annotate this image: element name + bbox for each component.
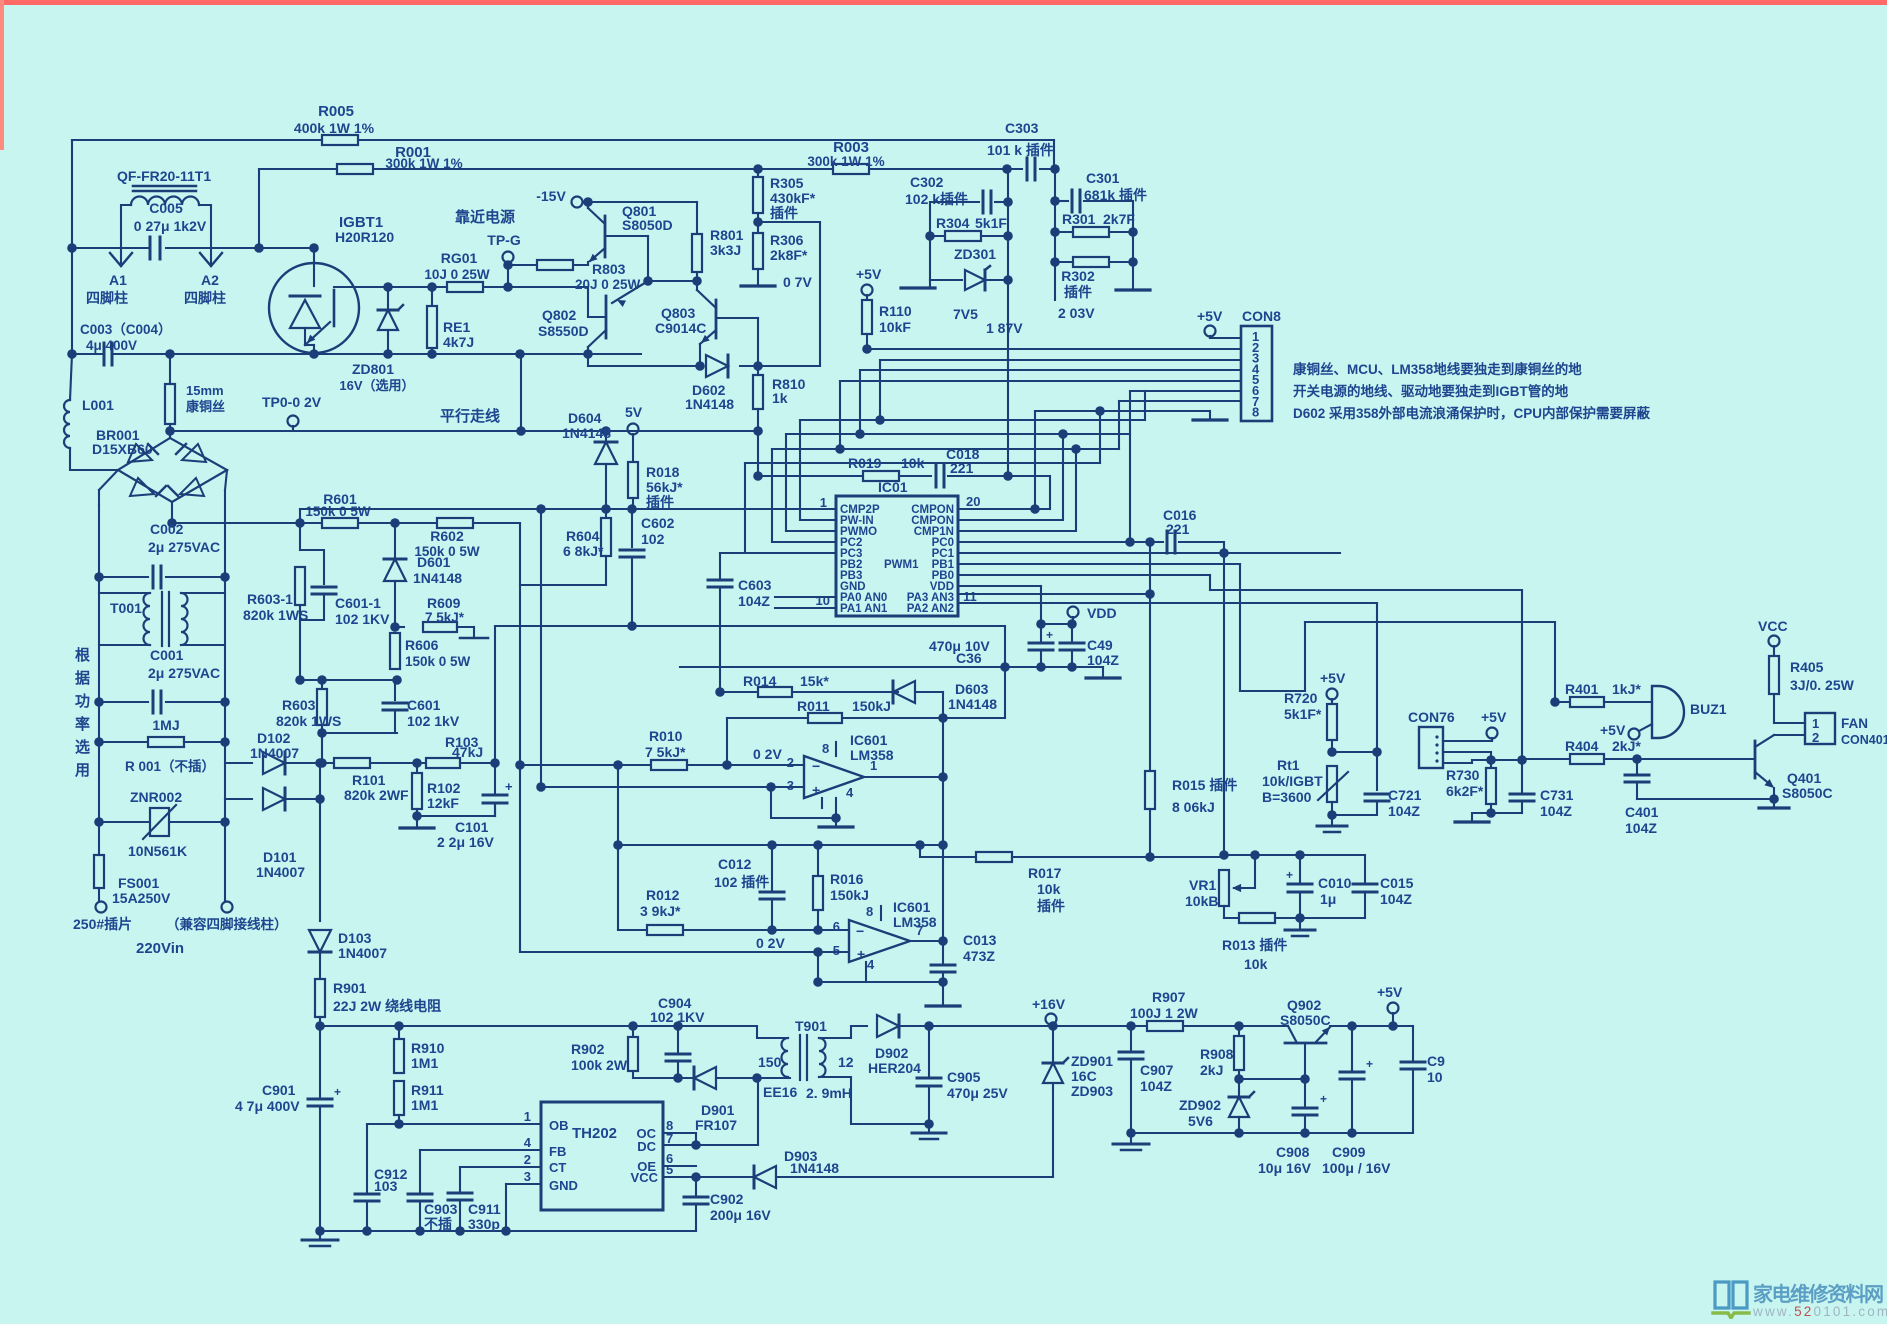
wire rail Q902 emitter east (1330, 1025, 1413, 1027)
wire MCU PB0 row (958, 574, 1210, 576)
wire CT line (460, 1166, 541, 1168)
capacitor C015 (1364, 855, 1366, 882)
node R017 R015 (1145, 852, 1155, 862)
ground C901 (319, 1231, 321, 1238)
terminal VDD (1068, 607, 1079, 618)
svg-text:C005: C005 (149, 200, 183, 216)
resistor R803 (537, 260, 573, 270)
node R908 bottom (1234, 1074, 1244, 1084)
wire secondary bottom (819, 1077, 929, 1124)
svg-text:-15V: -15V (536, 188, 566, 204)
resistor RE1 (431, 287, 433, 306)
wire C301 right drop (1132, 201, 1134, 262)
node opamp2 out (938, 936, 948, 946)
svg-text:10kF: 10kF (879, 319, 911, 335)
wire MCU PC1 row y553 (958, 552, 1224, 554)
svg-text:150kJ: 150kJ (830, 887, 869, 903)
svg-text:B=3600: B=3600 (1262, 789, 1312, 805)
node D603 R011 (938, 713, 948, 723)
wire con76 row y760 (1472, 759, 1522, 761)
svg-text:CT: CT (549, 1160, 566, 1175)
wire L001 to bridge (70, 448, 118, 470)
wire con76 pin top (1443, 740, 1492, 742)
svg-text:C602: C602 (641, 515, 675, 531)
resistor R013 (1239, 913, 1275, 923)
svg-text:+: + (1366, 1057, 1373, 1071)
svg-text:Q802: Q802 (542, 307, 576, 323)
thermistor Rt1 (1327, 766, 1337, 802)
svg-text:R603-1: R603-1 (247, 591, 293, 607)
wire rail R907 to Q902 (1183, 1025, 1288, 1027)
node C907 top (1126, 1021, 1136, 1031)
svg-text:3: 3 (524, 1169, 531, 1184)
svg-text:102 1KV: 102 1KV (335, 611, 390, 627)
node rail igbt emitter (309, 349, 319, 359)
wire bridge bottom to rail (171, 502, 173, 523)
svg-text:104Z: 104Z (1087, 652, 1119, 668)
resistor R016 (817, 845, 819, 876)
svg-text:C301: C301 (1086, 170, 1120, 186)
resistor R603 (321, 680, 323, 689)
wire sense line y431 (170, 430, 521, 432)
svg-text:150k 0 5W: 150k 0 5W (305, 504, 371, 519)
svg-text:不插: 不插 (424, 1216, 452, 1232)
node R730 top (1486, 755, 1496, 765)
wire con76 pin bottom (1443, 762, 1472, 764)
resistor R601 (322, 518, 358, 528)
wire MCU PC3 row to C603 (720, 552, 745, 554)
capacitor C907 (1130, 1026, 1132, 1050)
svg-text:+: + (857, 946, 865, 962)
wire right AC column x225 (225, 470, 227, 490)
svg-text:2: 2 (1812, 730, 1819, 745)
svg-text:T001: T001 (110, 600, 142, 616)
svg-text:104Z: 104Z (738, 593, 770, 609)
svg-text:FAN: FAN (1841, 716, 1868, 731)
svg-text:TH202: TH202 (572, 1125, 617, 1142)
svg-text:C908: C908 (1276, 1144, 1310, 1160)
svg-text:DC: DC (637, 1139, 656, 1154)
node R603-1 bottom row (295, 675, 305, 685)
svg-text:1kJ*: 1kJ* (1612, 681, 1641, 697)
wire CON8 pin7 (1119, 400, 1241, 402)
resistor R010 (651, 760, 687, 770)
svg-text:D901: D901 (701, 1102, 735, 1118)
diode D602 (706, 355, 728, 377)
wire pin3 line y787 (541, 786, 804, 788)
svg-text:C731: C731 (1540, 787, 1574, 803)
svg-text:1N4007: 1N4007 (338, 945, 387, 961)
node TP-G gate (503, 282, 513, 292)
svg-text:RE1: RE1 (443, 319, 470, 335)
svg-text:QF-FR20-11T1: QF-FR20-11T1 (117, 168, 211, 184)
svg-text:4: 4 (524, 1135, 532, 1150)
wire CON8 pin6 (1130, 390, 1241, 392)
svg-text:221: 221 (950, 460, 974, 476)
svg-text:56kJ*: 56kJ* (646, 479, 683, 495)
node C904 top (673, 1021, 683, 1031)
wire MCU VDD row (958, 585, 1041, 587)
resistor R012 (647, 925, 683, 935)
node C905 top (924, 1021, 934, 1031)
svg-text:+: + (1046, 628, 1053, 642)
wire opamp1 pin4 stub (821, 798, 823, 808)
node R304 right (1003, 231, 1013, 241)
svg-text:D103: D103 (338, 930, 372, 946)
node opamp1 gnd (831, 813, 841, 823)
svg-text:1: 1 (820, 495, 827, 510)
svg-text:473Z: 473Z (963, 948, 995, 964)
wire nest y449 (772, 448, 1119, 450)
ground CON8 pin8 (1193, 418, 1227, 421)
wire R011 line y718 (727, 717, 808, 719)
svg-text:插件: 插件 (1037, 898, 1065, 914)
node C010 top (1295, 850, 1305, 860)
resistor R910 (398, 1026, 400, 1039)
svg-text:0 27μ 1k2V: 0 27μ 1k2V (134, 218, 207, 234)
wire MCU PA3 row AN3 (958, 593, 1150, 595)
svg-text:C010: C010 (1318, 875, 1352, 891)
bridge diode br (180, 478, 204, 496)
ic TH202 box (541, 1102, 663, 1210)
wire pin20 row (958, 508, 1050, 510)
capacitor C721 (1365, 793, 1389, 796)
node ZD902 bottom (1234, 1128, 1244, 1138)
resistor R102 (416, 763, 418, 773)
svg-text:12kF: 12kF (427, 795, 459, 811)
svg-text:R910: R910 (411, 1040, 445, 1056)
ground Rt1 (1331, 815, 1333, 824)
resistor R801 (696, 202, 698, 235)
wire top rail corner x1054 (1053, 140, 1055, 169)
wire pin5 line y952 (520, 951, 849, 953)
svg-text:R015 插件: R015 插件 (1172, 777, 1237, 793)
svg-text:Q902: Q902 (1287, 997, 1321, 1013)
scan artifact red edge strips (0, 0, 1887, 5)
wire C018 to pin20 row (1008, 475, 1050, 477)
wire R001 line y169 (259, 168, 337, 170)
svg-text:2: 2 (787, 755, 794, 770)
ground R013 (1299, 918, 1301, 928)
svg-text:CON8: CON8 (1242, 308, 1281, 324)
wire CON8 pin5 (840, 380, 1241, 382)
node pin4 left (813, 977, 823, 987)
bridge diode tr (182, 444, 206, 462)
svg-text:插件: 插件 (646, 494, 674, 510)
wire gate line y287 (360, 286, 447, 288)
svg-text:R720: R720 (1284, 690, 1318, 706)
svg-text:5: 5 (666, 1162, 673, 1177)
node C903 bottom (415, 1226, 425, 1236)
svg-text:10: 10 (1427, 1069, 1443, 1085)
node RE1 top (427, 282, 437, 292)
svg-text:R016: R016 (830, 871, 864, 887)
node R606 bottom (392, 675, 402, 685)
svg-text:820k 1WS: 820k 1WS (276, 713, 341, 729)
svg-text:10N561K: 10N561K (128, 843, 187, 859)
svg-text:R603: R603 (282, 697, 316, 713)
wire bottom rail y1133 (1131, 1132, 1413, 1134)
node C001 left (94, 697, 104, 707)
wire C602 bottom row y626 (495, 625, 1005, 627)
wire opamp1 gnd loop (771, 787, 836, 818)
svg-text:家电维修资料网: 家电维修资料网 (1753, 1282, 1883, 1306)
svg-text:R005: R005 (318, 103, 354, 120)
wire +16V rail (929, 1025, 1147, 1027)
wire left vertical x72 (71, 140, 73, 354)
svg-text:R101: R101 (352, 772, 386, 788)
svg-text:ZD903: ZD903 (1071, 1083, 1113, 1099)
zener ZD902 (1229, 1097, 1249, 1117)
wire vertical x520 (519, 523, 521, 952)
node rail x72 (67, 349, 77, 359)
wire y855 segment (1224, 854, 1300, 856)
svg-text:1M1: 1M1 (411, 1097, 438, 1113)
bridge diode bl (130, 478, 154, 496)
svg-text:2: 2 (524, 1152, 531, 1167)
node C905 bottom (924, 1119, 934, 1129)
svg-text:平行走线: 平行走线 (440, 407, 500, 425)
svg-text:R010: R010 (649, 728, 683, 744)
svg-text:7 5kJ*: 7 5kJ* (425, 610, 465, 625)
svg-text:插件: 插件 (1064, 284, 1092, 300)
svg-text:2kJ*: 2kJ* (1612, 738, 1641, 754)
svg-text:102 k插件: 102 k插件 (905, 191, 968, 207)
wire main rail y1026 (320, 1025, 757, 1027)
node R102 bottom (412, 811, 422, 821)
node PC0 x1130 (1125, 537, 1135, 547)
svg-text:ZNR002: ZNR002 (130, 789, 182, 805)
svg-text:100k 2W: 100k 2W (571, 1057, 628, 1073)
svg-text:300k 1W 1%: 300k 1W 1% (807, 154, 884, 169)
node C721 top (1372, 747, 1382, 757)
resistor R609 (395, 626, 404, 628)
wire x320 down feed (319, 763, 321, 799)
svg-text:HER204: HER204 (868, 1060, 921, 1076)
svg-text:用: 用 (75, 762, 90, 779)
svg-text:www.520101.com: www.520101.com (1752, 1304, 1887, 1319)
wire R019 line y476 (757, 431, 759, 476)
terminal post A1 (110, 253, 132, 266)
node R013 right (1295, 913, 1305, 923)
node Q401 emitter (1769, 794, 1779, 804)
node C901 bottom (315, 1226, 325, 1236)
node rail x520 (515, 349, 525, 359)
node C908 bottom (1300, 1128, 1310, 1138)
svg-text:1k: 1k (772, 390, 788, 406)
node R603 top (317, 675, 327, 685)
svg-text:100J 1 2W: 100J 1 2W (1130, 1005, 1198, 1021)
diode D601 (394, 523, 396, 559)
wire vertical x1055 (1054, 169, 1056, 300)
svg-text:C911: C911 (468, 1201, 501, 1217)
wire MCU PA0 PA1 stubs (775, 596, 836, 598)
node ZD801 top (383, 282, 393, 292)
node bridge out (167, 518, 177, 528)
svg-text:1 87V: 1 87V (986, 320, 1023, 336)
svg-text:+5V: +5V (1481, 709, 1507, 725)
potentiometer VR1 (1219, 870, 1229, 906)
svg-text:C909: C909 (1332, 1144, 1366, 1160)
svg-text:20J 0 25W: 20J 0 25W (575, 277, 641, 292)
node PA3 R015 (1145, 589, 1155, 599)
svg-text:+: + (505, 779, 513, 794)
ground opamp1 (835, 818, 837, 825)
node x541 top (536, 504, 546, 514)
svg-text:3 9kJ*: 3 9kJ* (640, 903, 681, 919)
node R603-1 top (295, 518, 305, 528)
svg-text:102: 102 (641, 531, 665, 547)
svg-text:PA2 AN2: PA2 AN2 (907, 603, 954, 615)
node R012 C012 (767, 925, 777, 935)
zener ZD801 (387, 287, 389, 305)
node C301 left (1050, 196, 1060, 206)
svg-text:C003（C004）: C003（C004） (80, 322, 172, 337)
wire pin6 OE stub (663, 1165, 696, 1167)
node rail q802 collector (583, 349, 593, 359)
node R901 bottom (315, 1021, 325, 1031)
svg-text:+: + (1286, 868, 1293, 882)
node wiper top (1250, 850, 1260, 860)
svg-text:330p: 330p (468, 1216, 500, 1232)
node D604 bottom (601, 504, 611, 514)
node rail zd801 (383, 349, 393, 359)
ground R306 (741, 284, 775, 287)
node ZNR right (220, 817, 230, 827)
svg-text:IC01: IC01 (878, 479, 908, 495)
wire GND pin line (506, 1183, 541, 1185)
svg-text:0 7V: 0 7V (783, 274, 812, 290)
svg-text:10k: 10k (1244, 956, 1268, 972)
resistor R101 (334, 758, 370, 768)
capacitor C912 (366, 1124, 368, 1192)
svg-text:R110: R110 (879, 303, 912, 319)
resistor shunt 15mm (169, 354, 171, 384)
resistor R810 (757, 366, 759, 375)
ground C905 (928, 1124, 930, 1131)
node C602 bottom (627, 621, 637, 631)
svg-text:L001: L001 (82, 397, 114, 413)
node R103 right (490, 758, 500, 768)
terminal 250 tab left (96, 902, 107, 913)
svg-text:C001: C001 (150, 647, 184, 663)
node pin20 x1035 (1030, 504, 1040, 514)
svg-text:102 1KV: 102 1KV (650, 1009, 705, 1025)
wire x618 vertical (617, 765, 619, 930)
wire con76 pin mid (1443, 751, 1491, 753)
svg-text:10k: 10k (1037, 881, 1061, 897)
svg-text:400k 1W 1%: 400k 1W 1% (294, 120, 375, 136)
svg-text:VCC: VCC (1758, 618, 1788, 634)
resistor R019 (863, 471, 899, 481)
node R603 bottom (317, 728, 327, 738)
wire cap ground row y667 (680, 666, 1103, 668)
svg-text:R609: R609 (427, 595, 461, 611)
capacitor C603 (719, 553, 721, 578)
svg-text:C9014C: C9014C (655, 320, 706, 336)
node R801 bottom (692, 276, 702, 286)
node C911 bottom (455, 1226, 465, 1236)
wire ground rail y1231 (320, 1230, 696, 1232)
node rail re1 (427, 349, 437, 359)
svg-text:BUZ1: BUZ1 (1690, 701, 1727, 717)
svg-text:8: 8 (822, 741, 829, 756)
wire pin8 OC (663, 1133, 696, 1145)
node R401 left (1550, 697, 1560, 707)
wire y680 row (300, 679, 397, 681)
svg-text:D602 采用358外部电流浪涌保护时，CPU内部保护需要屏: D602 采用358外部电流浪涌保护时，CPU内部保护需要屏蔽 (1293, 405, 1651, 421)
resistor R907 (1147, 1021, 1183, 1031)
svg-text:8: 8 (1252, 405, 1259, 420)
svg-text:GND: GND (549, 1178, 578, 1193)
svg-text:102 插件: 102 插件 (714, 874, 769, 890)
wire opamp2 pin4 loop (865, 962, 867, 982)
svg-text:4: 4 (846, 785, 854, 800)
resistor R902 (632, 1026, 634, 1037)
svg-text:150: 150 (758, 1054, 782, 1070)
svg-text:EE16: EE16 (763, 1084, 797, 1100)
node output x943 (938, 772, 948, 782)
svg-text:430kF*: 430kF* (770, 190, 816, 206)
buzzer BUZ1 (1652, 686, 1684, 738)
svg-text:四脚柱: 四脚柱 (184, 290, 226, 306)
svg-text:1N4007: 1N4007 (256, 864, 305, 880)
svg-text:1: 1 (1812, 716, 1819, 731)
node CMP1N nest (1071, 444, 1081, 454)
node R902 top (628, 1021, 638, 1031)
resistor R302 (1055, 261, 1073, 263)
node 1MJ left (94, 737, 104, 747)
wire nest left verticals (799, 420, 801, 520)
ground C907 (1130, 1133, 1132, 1142)
svg-text:D902: D902 (875, 1045, 909, 1061)
wire y248 segment (72, 247, 148, 249)
ground C013 (926, 1004, 960, 1007)
svg-text:R302: R302 (1061, 268, 1095, 284)
svg-text:C901: C901 (262, 1082, 296, 1098)
node sense x521 (516, 426, 526, 436)
svg-text:+5V: +5V (1197, 308, 1223, 324)
svg-text:10J 0 25W: 10J 0 25W (424, 267, 490, 282)
svg-text:LM358: LM358 (893, 914, 937, 930)
wire pin5 VCC line (663, 1176, 754, 1178)
node nest p8 (1095, 406, 1105, 416)
svg-text:R304: R304 (936, 215, 970, 231)
svg-text:D603: D603 (955, 681, 989, 697)
capacitor C401 (1636, 759, 1638, 773)
wire R803 line y265 (508, 264, 537, 266)
svg-text:102 1kV: 102 1kV (407, 713, 460, 729)
wire opamp1 output (864, 776, 943, 778)
svg-text:20: 20 (966, 494, 980, 509)
wire top rail y140 (72, 139, 322, 141)
node R911 bottom (394, 1119, 404, 1129)
node C904 bottom (673, 1073, 683, 1083)
svg-text:101 k 插件: 101 k 插件 (987, 142, 1054, 158)
svg-text:T901: T901 (795, 1018, 827, 1034)
svg-text:R102: R102 (427, 780, 461, 796)
resistor R011 (808, 713, 842, 723)
wire rail to T901 primary top (757, 1026, 788, 1038)
capacitor C601 (394, 680, 396, 700)
svg-text:R405: R405 (1790, 659, 1824, 675)
watermark logo book (1715, 1282, 1747, 1308)
node +5V out (1388, 1021, 1398, 1031)
wire vertical x1224 (1223, 553, 1225, 855)
node D102 out (315, 758, 325, 768)
wire C731 bottom (1491, 812, 1522, 814)
svg-text:221: 221 (1166, 521, 1190, 537)
